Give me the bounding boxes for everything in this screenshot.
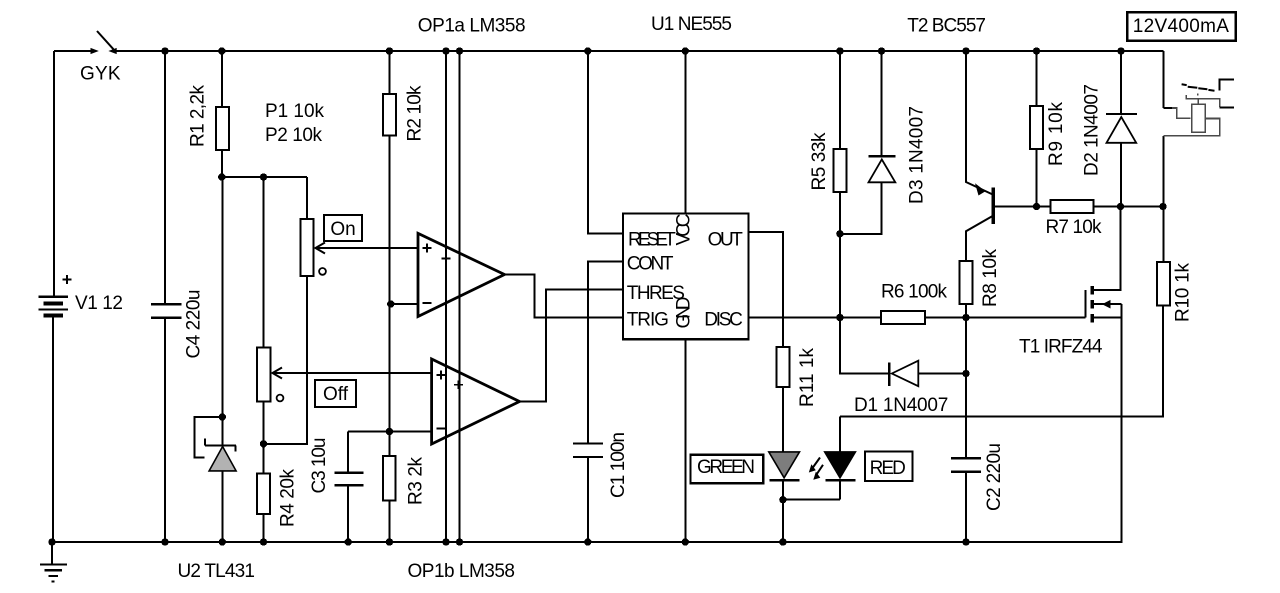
wire opamp supply rail 1 xyxy=(445,51,447,542)
op-amp U1a OP1a triangle xyxy=(418,233,505,316)
P2 wiper arrowhead xyxy=(273,368,283,379)
resistor R11 xyxy=(776,347,789,387)
wire R3 bottom lead xyxy=(388,501,390,542)
wire C4 top riser xyxy=(164,51,166,304)
wire D2 node to MOSFET drain xyxy=(1094,207,1121,290)
wire R1 top lead xyxy=(221,51,223,107)
resistor R2 xyxy=(383,94,396,136)
LED RED cathode bar xyxy=(826,479,856,482)
potentiometer P1 body xyxy=(301,219,314,276)
MOSFET T1 channel segment source xyxy=(1091,314,1094,322)
wire C2 bottom lead xyxy=(965,472,967,542)
resistor R8 xyxy=(960,261,973,304)
junction node (222.3,542) xyxy=(219,538,226,545)
resistor R7 xyxy=(1051,200,1094,213)
wire D2 bottom lead xyxy=(1120,143,1122,207)
relay armature tick xyxy=(1197,93,1199,95)
svg-text:12V400mA: 12V400mA xyxy=(1133,16,1230,37)
svg-text:T2 BC557: T2 BC557 xyxy=(907,15,986,36)
junction node (782.9,542) xyxy=(779,538,786,545)
junction node (446,51) xyxy=(442,47,449,54)
wire LED cathode link xyxy=(783,499,840,501)
wire P2 top riser xyxy=(263,177,265,348)
capacitor C3 xyxy=(335,473,364,486)
wire R2 to R3 node line xyxy=(388,136,390,457)
svg-text:R11 1k: R11 1k xyxy=(797,348,818,408)
wire GREEN LED cathode to ground rail xyxy=(782,480,784,542)
svg-text:RED: RED xyxy=(870,458,906,479)
wire relay feed from top rail xyxy=(1163,51,1165,108)
switch GYK blade xyxy=(97,31,114,49)
resistor R4 xyxy=(257,474,270,514)
wire R4 bottom lead xyxy=(263,514,265,542)
svg-text:R8 10k: R8 10k xyxy=(980,249,1001,308)
op-amp OP1a minus input sign xyxy=(423,302,432,304)
relay coil feed gray xyxy=(1172,108,1191,118)
junction node (459.5,542) xyxy=(456,538,463,545)
MOSFET T1 channel segment drain xyxy=(1091,286,1094,294)
diode D1 cathode bar xyxy=(888,362,890,386)
svg-text:C2 220u: C2 220u xyxy=(984,443,1005,511)
Off label box xyxy=(315,380,356,407)
svg-text:R5 33k: R5 33k xyxy=(809,132,830,191)
wire C4 bottom lead xyxy=(164,318,166,543)
wire anode row to R10 xyxy=(840,306,1163,417)
junction node (839.9,233.8) xyxy=(836,230,843,237)
junction node (685.3,51) xyxy=(682,47,689,54)
wire R8 bottom lead xyxy=(965,304,967,318)
junction node (459.5,51) xyxy=(456,47,463,54)
resistor R5 xyxy=(833,149,846,192)
wire P1 top riser xyxy=(306,177,308,219)
svg-text:C3 10u: C3 10u xyxy=(309,438,330,494)
wire OP1a output to TRIG xyxy=(504,275,622,318)
svg-text:R1 2,2k: R1 2,2k xyxy=(188,85,209,148)
wire T2 base to R9 R7 node xyxy=(994,206,1051,208)
diode D1 triangle xyxy=(892,361,919,387)
junction node (782.9,499.7) xyxy=(779,496,786,503)
junction node (587.8,51) xyxy=(584,47,591,54)
junction node (966,542) xyxy=(962,538,969,545)
svg-text:DISC: DISC xyxy=(704,309,743,330)
wire C3 top riser xyxy=(347,432,349,473)
svg-text:GREEN: GREEN xyxy=(697,457,755,478)
MOSFET T1 channel segment body xyxy=(1091,300,1094,308)
wire R6 to gate node xyxy=(925,317,966,319)
junction node (1120.5,206.5) xyxy=(1117,203,1124,210)
wire 555 GND lead xyxy=(684,339,686,542)
wire R5 node to DISC node xyxy=(839,234,841,318)
On label box xyxy=(324,215,362,241)
wire relay return to R10 xyxy=(1163,136,1165,262)
junction node (263.5,177) xyxy=(260,173,267,180)
wire bottom ground rail xyxy=(52,541,1122,543)
junction node (389.4,431.5) xyxy=(386,428,393,435)
svg-text:R4 20k: R4 20k xyxy=(278,469,299,528)
svg-text:RESET: RESET xyxy=(628,230,676,251)
battery V1 plate3 xyxy=(39,309,68,311)
junction node (52,542) xyxy=(48,538,55,545)
relay common contact line xyxy=(1186,95,1219,107)
wire R9 bottom lead xyxy=(1036,149,1038,207)
wire RED LED anode riser xyxy=(839,417,841,452)
capacitor C2 xyxy=(951,458,981,472)
relay blade dashes xyxy=(1182,84,1215,90)
junction node (1121,51) xyxy=(1117,47,1124,54)
wire RESET riser from top rail xyxy=(588,51,623,234)
wire R7 right lead xyxy=(1094,206,1164,208)
wire D2 top lead xyxy=(1120,51,1122,114)
wire OP1b output to THRES xyxy=(518,289,623,401)
svg-text:D3 1N4007: D3 1N4007 xyxy=(907,106,928,204)
title box 12V400mA xyxy=(1127,12,1235,40)
MOSFET T1 body stub with arrow xyxy=(1094,303,1122,305)
wire D3 top lead xyxy=(881,51,883,156)
svg-text:R3 2k: R3 2k xyxy=(406,457,427,506)
wire T2 emitter lead xyxy=(966,51,992,194)
wire T2 collector lead to R8 xyxy=(966,216,992,261)
relay armature link stub xyxy=(1197,99,1199,105)
wire R5 bottom lead xyxy=(839,192,841,234)
junction node (263.5,542) xyxy=(260,538,267,545)
battery V1 plus sign xyxy=(63,275,72,284)
svg-text:OP1b LM358: OP1b LM358 xyxy=(408,561,516,582)
junction node (1036.5,51) xyxy=(1033,47,1040,54)
switch GYK right contact arrowhead xyxy=(108,48,116,54)
junction node (587.8,542) xyxy=(584,538,591,545)
op-amp OP1a supply plus sign xyxy=(442,254,451,263)
wire R11 to GREEN LED xyxy=(782,387,784,452)
wire battery bottom lead xyxy=(52,315,54,542)
junction node (221.8,51) xyxy=(218,47,225,54)
wire relay feed stub xyxy=(1164,107,1172,109)
junction node (1036.5,206.5) xyxy=(1033,203,1040,210)
svg-text:R9 10k: R9 10k xyxy=(1046,102,1067,167)
wire top rail main xyxy=(111,50,1164,52)
wire D1 anode lead xyxy=(919,373,967,375)
wire TL431 vertical from node xyxy=(221,177,223,445)
RED label box xyxy=(865,452,913,482)
T2 emitter arrowhead xyxy=(975,183,986,195)
wire RED LED cathode lead xyxy=(839,480,841,500)
svg-text:R2 10k: R2 10k xyxy=(405,85,426,142)
P1 wiper arrowhead xyxy=(316,243,326,254)
LED GREEN triangle xyxy=(769,452,800,478)
junction node (446,542) xyxy=(442,538,449,545)
svg-text:P2 10k: P2 10k xyxy=(265,125,323,146)
wire gate node to MOSFET gate xyxy=(966,317,1086,319)
wire node row y177 xyxy=(222,176,307,178)
junction node (966,317.5) xyxy=(962,314,969,321)
resistor R6 xyxy=(881,311,925,324)
svg-text:U2 TL431: U2 TL431 xyxy=(178,561,256,582)
wire OP1a noninverting input from P1 wiper xyxy=(317,247,419,249)
wire DISC to R6 xyxy=(749,317,882,319)
junction node (685.3,542) xyxy=(682,538,689,545)
diode D3 cathode bar xyxy=(869,155,896,157)
battery V1 plate4 thick xyxy=(44,314,63,318)
junction node (966,373.5) xyxy=(962,370,969,377)
MOSFET T1 source stub xyxy=(1094,317,1122,319)
svg-text:On: On xyxy=(330,219,355,240)
potentiometer P2 body xyxy=(257,348,271,402)
resistor R9 xyxy=(1030,106,1043,149)
wire R4 top lead xyxy=(263,444,265,474)
svg-text:CONT: CONT xyxy=(627,254,674,275)
capacitor C4 xyxy=(151,304,181,318)
wire C3 bottom lead xyxy=(347,485,349,542)
wire R2 top lead xyxy=(388,51,390,94)
wire OP1b inverting input xyxy=(348,431,431,433)
junction node (222.3,417) xyxy=(219,413,226,420)
potentiometer P1 terminal circle xyxy=(319,268,326,275)
svg-text:OUT: OUT xyxy=(708,230,744,251)
TL431 U2 reference loop xyxy=(194,417,222,458)
relay coil box xyxy=(1192,104,1206,132)
junction node (348.2,542) xyxy=(345,538,352,545)
svg-text:R6 100k: R6 100k xyxy=(881,282,948,303)
wire 555 OUT to R11 xyxy=(749,232,783,347)
svg-text:V1 12: V1 12 xyxy=(75,293,123,314)
junction node (390.8,304) xyxy=(387,300,394,307)
svg-text:D2 1N4007: D2 1N4007 xyxy=(1082,84,1103,176)
svg-text:C1 100n: C1 100n xyxy=(608,432,629,498)
transistor T2 base bar xyxy=(992,188,995,224)
diode D2 cathode bar xyxy=(1106,113,1137,115)
op-amp OP1b minus input sign xyxy=(437,428,446,430)
wire TL431 bottom lead xyxy=(221,470,223,542)
svg-text:R10 1k: R10 1k xyxy=(1173,263,1194,323)
junction node (263.5,443.8) xyxy=(260,440,267,447)
MOSFET T1 gate bar xyxy=(1085,290,1087,318)
diode D2 triangle xyxy=(1107,117,1137,143)
wire C1 bottom lead xyxy=(587,457,589,542)
wire R8 node vertical to C2 xyxy=(965,318,967,459)
op-amp U1b OP1b triangle xyxy=(432,359,520,444)
junction node (839.9,51) xyxy=(836,47,843,54)
GREEN label box xyxy=(691,455,764,484)
junction node (966,51) xyxy=(962,47,969,54)
junction node (1163,206.5) xyxy=(1159,203,1166,210)
wire left vertical battery top xyxy=(53,51,55,297)
LED light arrows xyxy=(813,458,824,475)
battery V1 plate1 xyxy=(39,296,68,298)
resistor R3 xyxy=(383,456,396,501)
junction node (165,51) xyxy=(161,47,168,54)
junction node (165,542) xyxy=(161,538,168,545)
TL431 U2 triangle xyxy=(209,447,236,471)
svg-text:T1 IRFZ44: T1 IRFZ44 xyxy=(1019,337,1103,358)
wire R5 top lead xyxy=(839,51,841,149)
battery V1 plate2 thick xyxy=(44,302,63,306)
LED GREEN cathode bar xyxy=(770,479,800,482)
svg-text:R7 10k: R7 10k xyxy=(1046,217,1103,238)
junction node (389.4,542) xyxy=(386,538,393,545)
wire OP1b noninverting input from P2 wiper xyxy=(274,372,432,374)
LED RED triangle xyxy=(825,452,856,478)
svg-text:U1 NE555: U1 NE555 xyxy=(651,14,732,35)
op-amp OP1b supply plus sign xyxy=(454,380,463,389)
junction node (389.4,51) xyxy=(386,47,393,54)
diode D3 triangle xyxy=(869,159,896,182)
svg-text:GND: GND xyxy=(674,297,695,329)
resistor R1 xyxy=(216,107,229,150)
wire MOSFET source to ground rail xyxy=(1120,304,1122,542)
wire P1 bottom riser xyxy=(264,276,308,444)
op-amp OP1b plus input sign xyxy=(437,371,446,380)
resistor R10 xyxy=(1157,262,1170,306)
capacitor C1 xyxy=(573,444,603,458)
relay NO contact stub black xyxy=(1220,107,1235,109)
wire R1 bottom lead xyxy=(221,150,223,177)
switch GYK left contact arrowhead xyxy=(91,48,99,54)
svg-text:Off: Off xyxy=(323,384,349,405)
wire D3 bottom lead to node xyxy=(840,182,882,234)
junction node (881.5,51) xyxy=(878,47,885,54)
wire top rail left segment to switch xyxy=(54,50,96,52)
relay coil return gray xyxy=(1164,119,1220,136)
junction node (839.9,317.5) xyxy=(836,314,843,321)
wire 555 VCC lead xyxy=(684,51,686,214)
potentiometer P2 terminal circle xyxy=(277,395,284,402)
wire OP1a inverting input xyxy=(391,303,418,305)
wire R9 top lead xyxy=(1036,51,1038,106)
svg-text:P1 10k: P1 10k xyxy=(265,101,325,122)
wire DISC node down to D1 cathode xyxy=(840,318,889,374)
ground symbol xyxy=(40,542,67,582)
IC U1 NE555 box xyxy=(623,214,749,340)
wire P2 bottom lead xyxy=(263,402,265,444)
svg-text:D1 1N4007: D1 1N4007 xyxy=(854,395,948,416)
svg-text:TRIG: TRIG xyxy=(627,309,669,330)
wire CONT to C1 riser xyxy=(588,262,623,444)
relay NC contact black xyxy=(1220,80,1235,91)
wire opamp supply rail 2 xyxy=(459,51,461,542)
svg-text:VCC: VCC xyxy=(674,214,695,246)
svg-text:GYK: GYK xyxy=(80,64,121,85)
junction node (221.8,177) xyxy=(218,173,225,180)
svg-text:OP1a LM358: OP1a LM358 xyxy=(418,15,526,36)
op-amp OP1a plus input sign xyxy=(423,244,432,253)
TL431 U2 cathode bar with ticks xyxy=(205,439,236,452)
svg-text:C4 220u: C4 220u xyxy=(184,290,205,359)
